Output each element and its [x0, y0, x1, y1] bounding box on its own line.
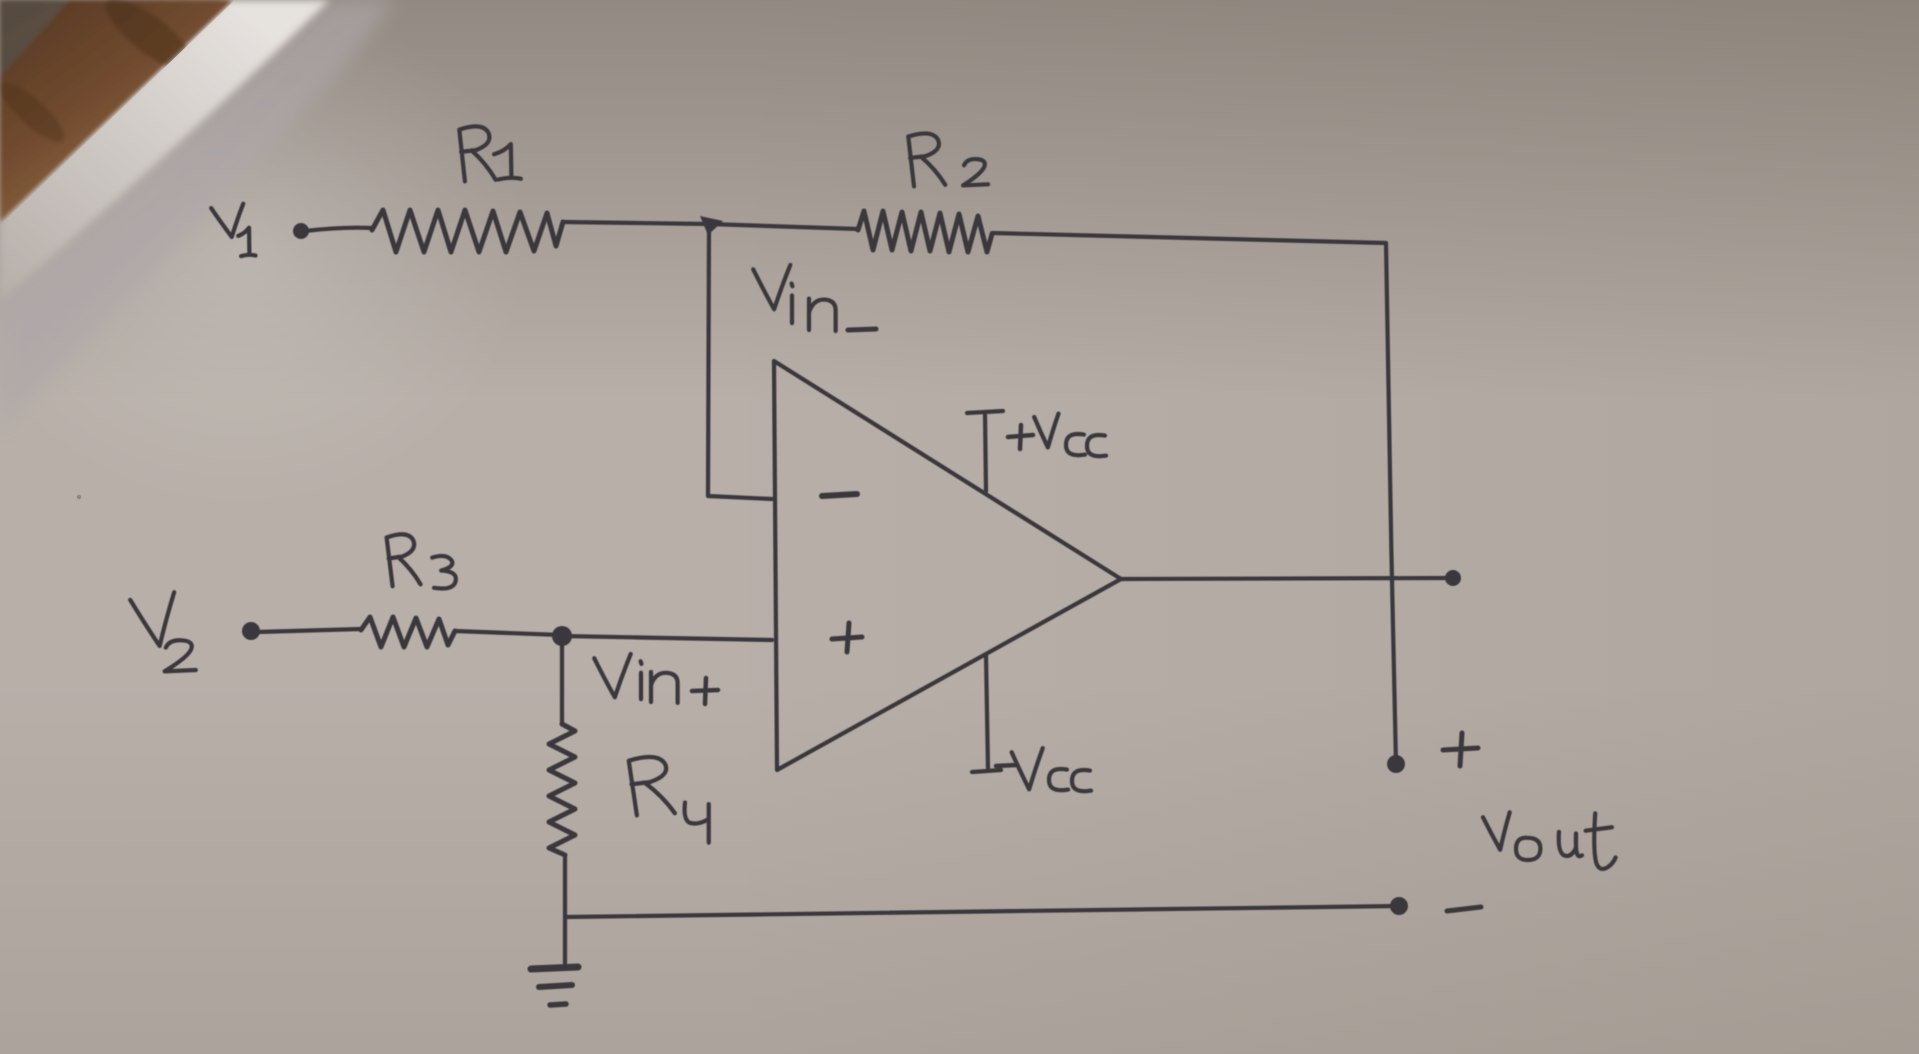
- wire R2 to right corner: [992, 233, 1386, 243]
- paper shading top: [0, 0, 1919, 400]
- label Vin-: [753, 265, 793, 310]
- +Vcc symbol: [967, 411, 1003, 491]
- plus sign of Vin+ label: [692, 678, 718, 704]
- paper crease shadow band (top-left): [0, 0, 395, 430]
- paper shading right: [700, 0, 1919, 1054]
- wire right vertical (feedback to output node): [1386, 243, 1396, 764]
- label V1: [211, 204, 249, 238]
- ink layer: [242, 210, 1481, 1005]
- paper bright edge band (top-left): [0, 0, 330, 300]
- minus sign of -Vcc label: [996, 765, 1016, 766]
- node A junction tick: [700, 216, 723, 235]
- label V2: [130, 592, 183, 648]
- wire node A to R2: [709, 224, 858, 229]
- label R2: [908, 133, 945, 187]
- resistor R1: [372, 210, 563, 252]
- wire output: [1121, 578, 1453, 579]
- paper highlight near top-left edge: [0, 0, 530, 510]
- wire inverting input (node A down and right): [708, 226, 772, 499]
- label R4: [629, 756, 675, 816]
- label -Vcc (V and cc): [1011, 748, 1045, 790]
- plus sign of +Vcc label: [1008, 425, 1033, 449]
- wire R4 to ground: [563, 855, 567, 963]
- terminal dot V1: [293, 223, 309, 239]
- plus sign at non-inverting input: [832, 623, 862, 652]
- label +Vcc (V and cc): [1034, 414, 1060, 448]
- paper shading bottom: [0, 680, 1919, 1054]
- ground: [531, 967, 578, 969]
- text labels (hand-drawn strokes): [130, 125, 1616, 868]
- minus sign output terminal: [1447, 907, 1481, 911]
- paper speck: [77, 495, 81, 499]
- label R1: [459, 125, 496, 181]
- wooden table corner (top-left): [0, 0, 233, 222]
- -Vcc symbol: [972, 655, 1001, 772]
- resistor R4: [549, 724, 575, 855]
- minus sign of Vin- label: [848, 329, 876, 330]
- resistor R2: [858, 211, 992, 252]
- output dot: [1445, 570, 1461, 586]
- node B junction dot: [552, 626, 572, 646]
- terminal dot output +: [1387, 755, 1405, 773]
- wire R1 to node A: [563, 222, 709, 224]
- op-amp U1: [774, 361, 1121, 770]
- wire node B to non-inverting input: [562, 636, 772, 640]
- resistor R3: [361, 617, 455, 647]
- terminal dot bottom -: [1390, 897, 1408, 915]
- wire R3 to node B: [455, 631, 561, 635]
- terminal dot V2: [242, 622, 260, 640]
- wire node B down to R4: [560, 636, 564, 724]
- minus sign at inverting input: [822, 494, 857, 496]
- label R3: [386, 533, 420, 586]
- label Vout: [1483, 812, 1514, 851]
- label Vin+: [594, 654, 634, 698]
- plus sign output terminal: [1443, 733, 1478, 766]
- wire V2 to R3: [257, 629, 361, 632]
- wire V1 to R1: [305, 228, 372, 231]
- wire bottom (ground return): [566, 906, 1399, 917]
